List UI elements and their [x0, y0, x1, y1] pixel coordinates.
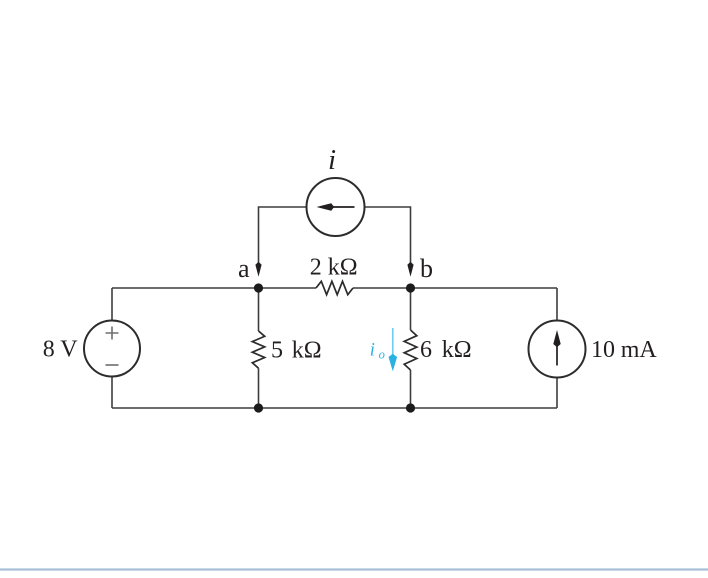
wire left branch upper — [111, 288, 113, 321]
wire right branch lower — [556, 378, 558, 409]
svg-text:mA: mA — [621, 337, 658, 363]
current source i (top circle) — [307, 178, 365, 236]
wire 6k lower lead — [410, 370, 412, 408]
svg-text:6: 6 — [420, 337, 432, 363]
wire bottom rail — [112, 407, 557, 409]
arrow inside top source (points left) — [330, 206, 355, 208]
wire left branch lower — [111, 377, 113, 409]
svg-text:kΩ: kΩ — [292, 338, 322, 364]
plus sign — [106, 327, 119, 340]
wire top rail a-b and outer — [112, 287, 316, 289]
node a dot — [254, 283, 263, 292]
minus sign — [106, 364, 119, 366]
arrow inside 10mA source (points up) — [556, 343, 558, 366]
svg-text:8 V: 8 V — [43, 337, 79, 363]
svg-text:10: 10 — [591, 337, 615, 363]
svg-text:b: b — [420, 254, 433, 283]
node bottom-left dot — [254, 403, 263, 412]
wire 5k lower lead — [258, 368, 260, 408]
resistor 2k (horizontal zigzag) — [316, 281, 353, 294]
wire top rail right of 2k — [353, 287, 557, 289]
wire current-source loop left — [259, 207, 307, 264]
svg-text:2 kΩ: 2 kΩ — [310, 255, 358, 281]
resistor 5k (vertical zigzag) — [252, 331, 264, 368]
wire 6k upper lead — [410, 288, 412, 330]
i_o arrowhead (cyan) — [389, 354, 398, 372]
current source 10 mA circle — [529, 321, 586, 378]
svg-text:kΩ: kΩ — [442, 337, 472, 363]
node bottom-right dot — [406, 403, 415, 412]
wire current-source loop right — [365, 207, 411, 264]
resistor 6k (vertical zigzag) — [404, 330, 417, 370]
node b dot — [406, 283, 415, 292]
wire 5k upper lead — [258, 288, 260, 331]
bottom rule (light blue) — [0, 568, 708, 570]
voltage source 8V circle — [84, 321, 140, 377]
svg-text:o: o — [379, 348, 385, 362]
wire right branch upper — [556, 288, 558, 321]
i_o arrow shaft (cyan) — [392, 328, 394, 356]
svg-text:5: 5 — [271, 338, 283, 364]
svg-text:i: i — [370, 341, 375, 361]
arrowhead into node b — [407, 262, 413, 277]
svg-text:a: a — [238, 254, 250, 283]
svg-text:i: i — [328, 144, 336, 176]
arrowhead into node a — [255, 262, 261, 277]
